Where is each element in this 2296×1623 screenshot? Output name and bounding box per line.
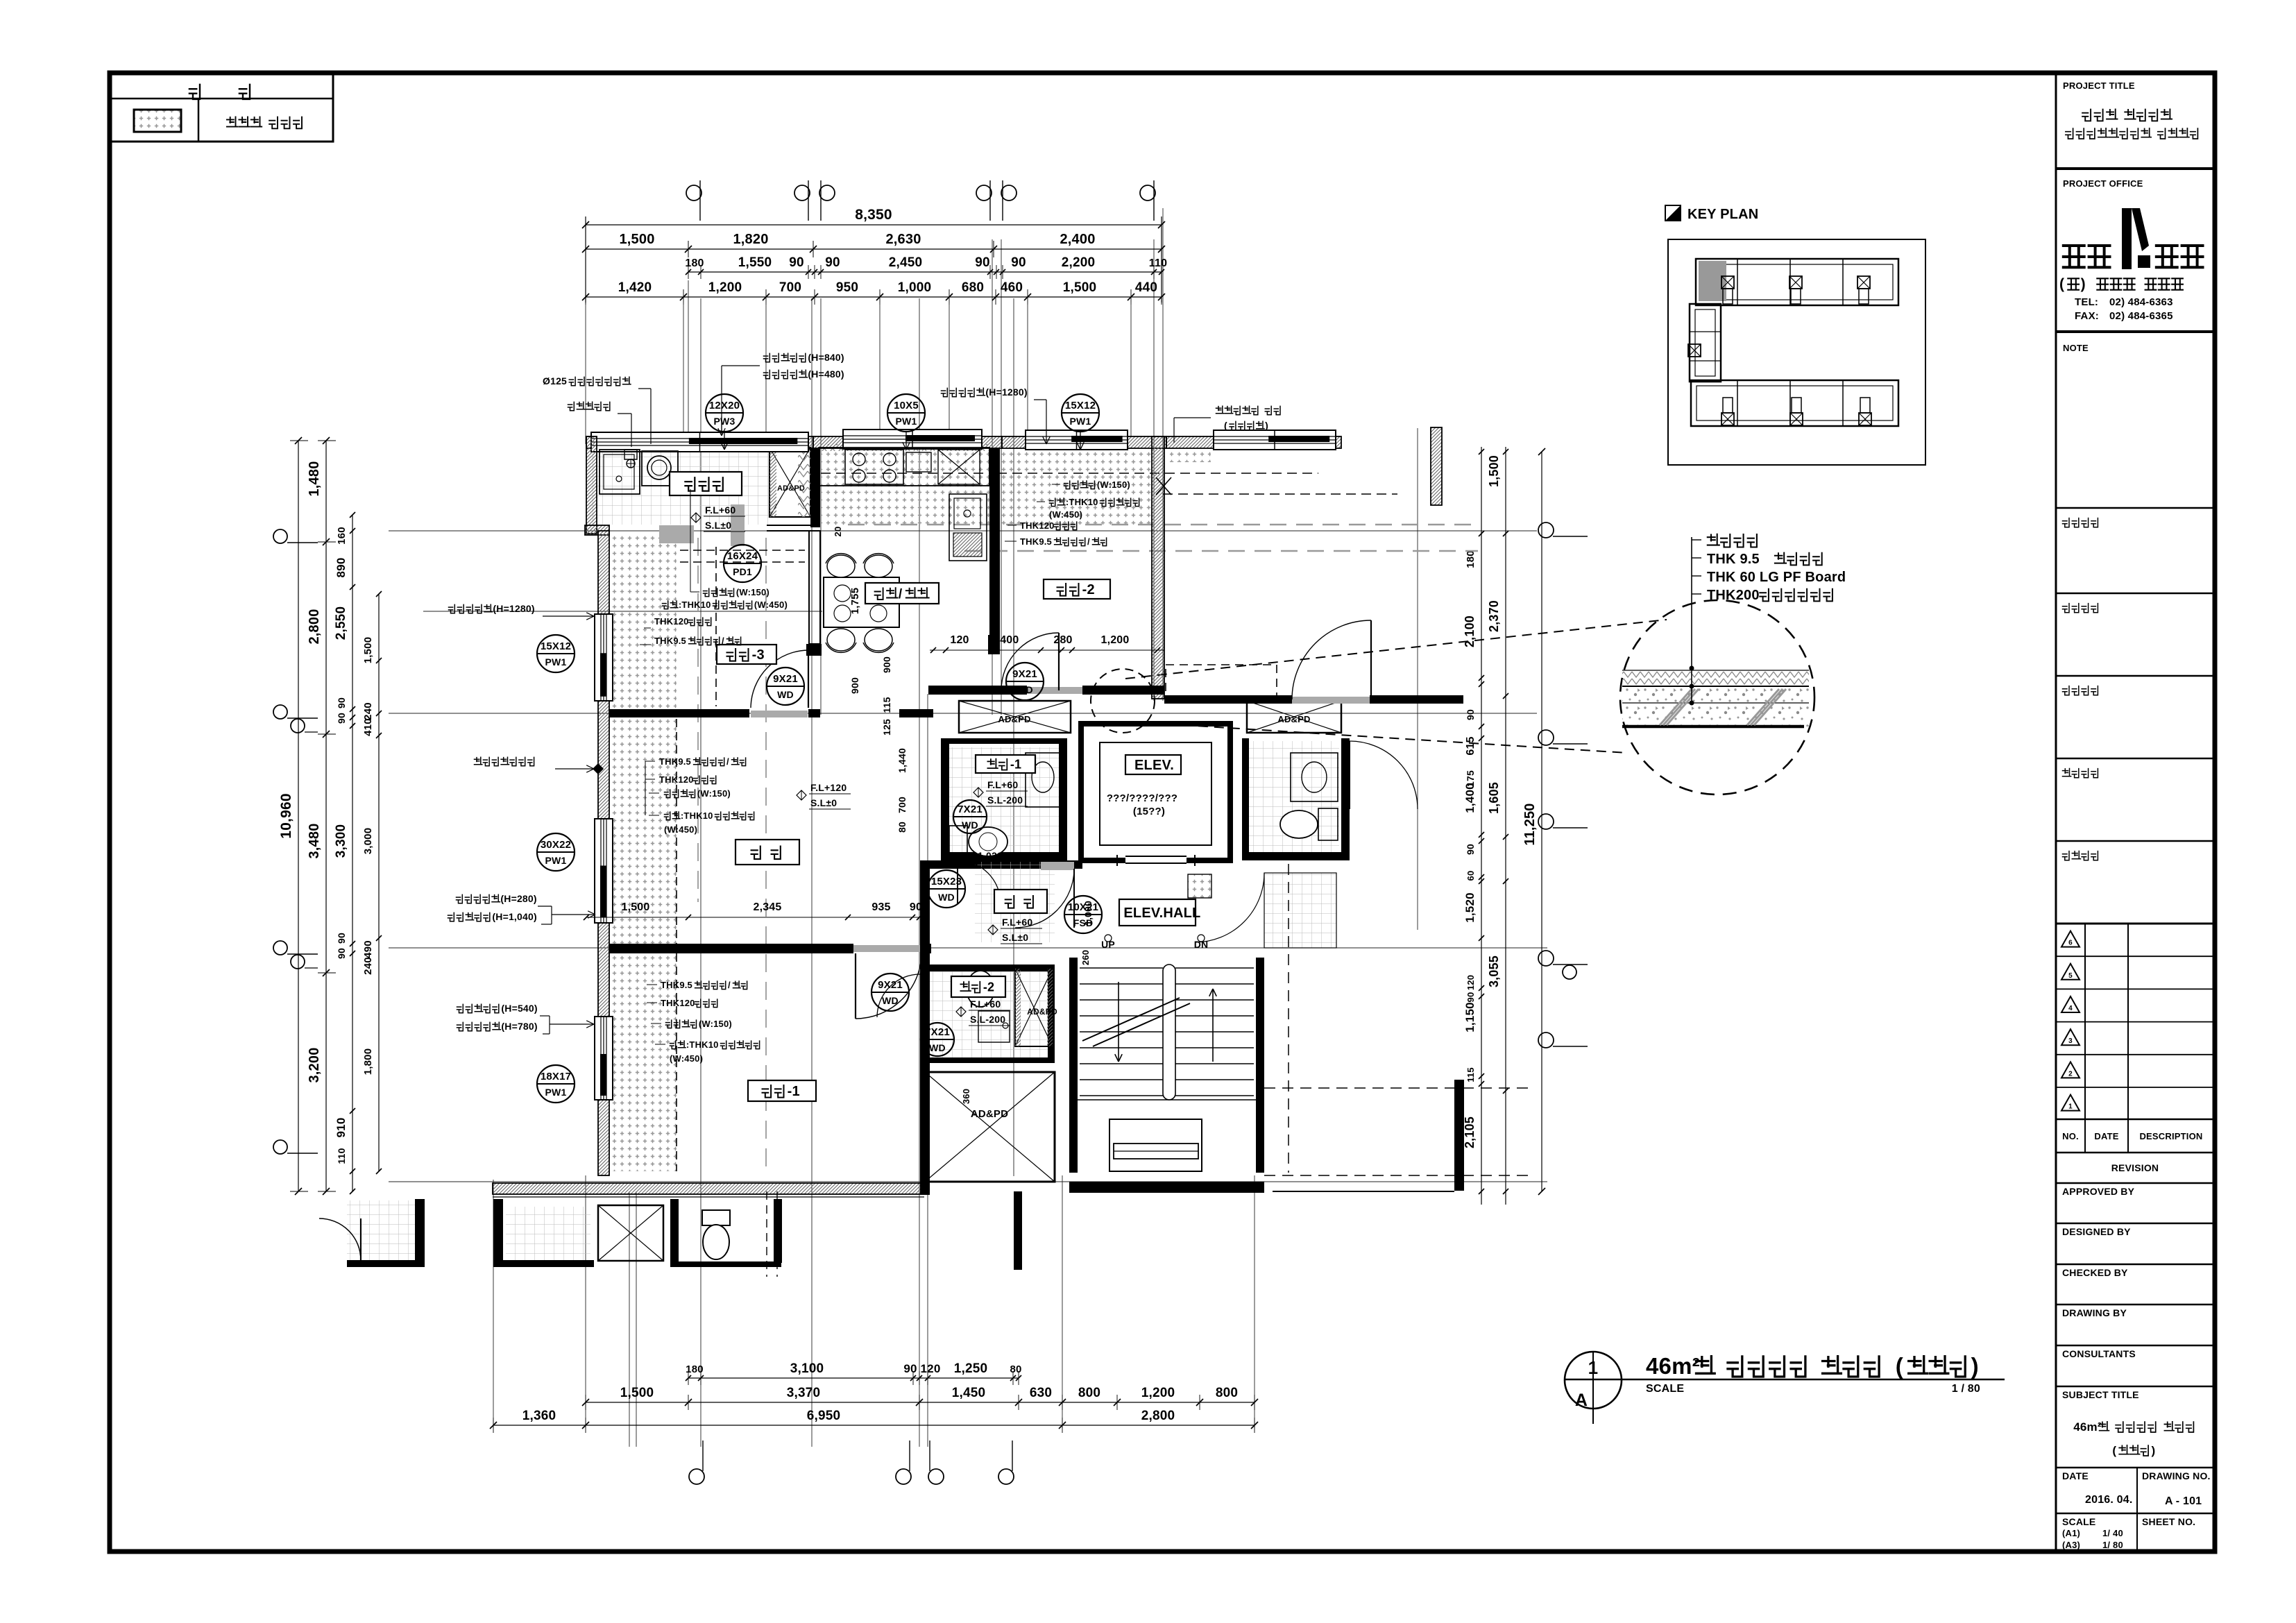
svg-text:PW1: PW1 — [896, 416, 917, 427]
svg-text:(W:450): (W:450) — [754, 600, 788, 610]
svg-text:11,250: 11,250 — [1522, 803, 1538, 845]
svg-text:3: 3 — [2068, 1037, 2073, 1045]
svg-text:F.L+60: F.L+60 — [970, 999, 1001, 1010]
svg-text:2,370: 2,370 — [1487, 600, 1501, 632]
svg-text:5: 5 — [2068, 972, 2073, 980]
svg-text:-2: -2 — [1082, 582, 1095, 597]
svg-text:6,950: 6,950 — [807, 1409, 841, 1423]
svg-text:1 / 80: 1 / 80 — [1952, 1383, 1980, 1395]
svg-text:THK200: THK200 — [1707, 588, 1760, 603]
svg-text:02) 484-6365: 02) 484-6365 — [2109, 310, 2173, 322]
svg-text:SCALE: SCALE — [1646, 1383, 1684, 1395]
svg-text:REVISION: REVISION — [2111, 1162, 2159, 1173]
svg-text:10X5: 10X5 — [894, 400, 919, 411]
svg-text:(H=1,040): (H=1,040) — [492, 911, 536, 922]
svg-text:180: 180 — [685, 257, 704, 269]
svg-text:2,450: 2,450 — [889, 255, 923, 270]
svg-text:(W:150): (W:150) — [697, 788, 731, 799]
svg-text:A - 101: A - 101 — [2165, 1495, 2202, 1507]
svg-text:DATE: DATE — [2094, 1131, 2118, 1141]
svg-text:1,500: 1,500 — [1063, 280, 1097, 295]
svg-text:THK120: THK120 — [654, 616, 689, 627]
svg-text:F.L+120: F.L+120 — [810, 782, 847, 793]
svg-text:02) 484-6363: 02) 484-6363 — [2109, 296, 2173, 308]
svg-text:PW1: PW1 — [1070, 416, 1091, 427]
svg-text:1,000: 1,000 — [1082, 901, 1094, 926]
svg-text:8,350: 8,350 — [855, 207, 892, 223]
svg-text:90: 90 — [825, 255, 840, 270]
svg-text:1,420: 1,420 — [618, 280, 652, 295]
svg-text:240: 240 — [362, 957, 374, 975]
svg-text::THK10: :THK10 — [681, 810, 713, 821]
svg-text:2016. 04.: 2016. 04. — [2085, 1494, 2133, 1506]
svg-text:F.L+60: F.L+60 — [987, 779, 1018, 790]
svg-text:1,500: 1,500 — [619, 232, 654, 247]
svg-text:(: ( — [2112, 1444, 2116, 1457]
svg-text:3,000: 3,000 — [362, 828, 374, 855]
svg-text:280: 280 — [1053, 634, 1072, 646]
svg-text:440: 440 — [1135, 280, 1157, 295]
svg-text:800: 800 — [1078, 1386, 1100, 1400]
svg-text:(H=840): (H=840) — [808, 352, 844, 363]
svg-text:THK9.5: THK9.5 — [661, 980, 692, 990]
svg-text:THK9.5: THK9.5 — [654, 636, 686, 646]
svg-text:S.L-200: S.L-200 — [987, 794, 1023, 806]
svg-text:260: 260 — [1080, 950, 1091, 965]
svg-text:): ) — [2081, 276, 2086, 292]
svg-text:460: 460 — [1001, 280, 1023, 295]
svg-text:/: / — [722, 636, 724, 646]
svg-text:SUBJECT TITLE: SUBJECT TITLE — [2062, 1389, 2139, 1400]
svg-text:(W:150): (W:150) — [699, 1019, 732, 1029]
svg-text:-1: -1 — [1010, 757, 1021, 771]
svg-text:9X21: 9X21 — [773, 673, 798, 685]
svg-text:9X21: 9X21 — [878, 979, 903, 991]
svg-text:125: 125 — [881, 719, 892, 736]
svg-text:1,360: 1,360 — [522, 1409, 556, 1423]
svg-text:1,020: 1,020 — [978, 850, 1003, 861]
svg-text:(: ( — [1896, 1353, 1903, 1379]
svg-text:DRAWING BY: DRAWING BY — [2062, 1307, 2127, 1318]
svg-text:1,500: 1,500 — [362, 637, 374, 664]
svg-text:F.L+60: F.L+60 — [1002, 917, 1032, 928]
svg-text:180: 180 — [1465, 550, 1477, 568]
svg-text:110: 110 — [1149, 257, 1167, 269]
svg-text:AD&PD: AD&PD — [777, 484, 805, 493]
svg-text:WD: WD — [777, 689, 794, 700]
svg-text:15X12: 15X12 — [1065, 400, 1096, 411]
svg-text:80: 80 — [896, 822, 908, 833]
svg-text:15X12: 15X12 — [541, 640, 571, 652]
svg-text:SHEET NO.: SHEET NO. — [2142, 1516, 2195, 1527]
svg-text:DN: DN — [1194, 939, 1209, 950]
svg-text:F.L+60: F.L+60 — [705, 504, 735, 516]
svg-text:2,345: 2,345 — [753, 901, 781, 913]
svg-text:90: 90 — [789, 255, 804, 270]
svg-text:(H=540): (H=540) — [501, 1003, 537, 1014]
svg-text:1,800: 1,800 — [362, 1048, 374, 1076]
svg-text:/: / — [728, 980, 731, 990]
svg-text:PW1: PW1 — [545, 1087, 567, 1098]
svg-text:KEY PLAN: KEY PLAN — [1687, 207, 1758, 222]
svg-text:240: 240 — [362, 702, 374, 720]
svg-text:1,250: 1,250 — [954, 1361, 988, 1376]
svg-text:NOTE: NOTE — [2063, 343, 2089, 353]
svg-text:2,200: 2,200 — [1062, 255, 1096, 270]
svg-text:1,755: 1,755 — [849, 588, 861, 615]
svg-text::THK10: :THK10 — [1066, 497, 1098, 507]
svg-text:S.L±0: S.L±0 — [1002, 932, 1028, 943]
svg-text:7X21: 7X21 — [958, 804, 983, 815]
svg-text:3,200: 3,200 — [307, 1047, 322, 1082]
svg-text:80: 80 — [1010, 1363, 1021, 1375]
svg-text:2,550: 2,550 — [334, 606, 348, 640]
svg-text:1,500: 1,500 — [1487, 455, 1501, 487]
svg-text:-3: -3 — [752, 647, 765, 663]
svg-text:(H=280): (H=280) — [500, 893, 536, 904]
svg-text:3,055: 3,055 — [1487, 955, 1501, 987]
svg-text:DATE: DATE — [2062, 1470, 2089, 1481]
svg-text:(H=480): (H=480) — [808, 368, 844, 380]
svg-text:THK 60 LG PF Board: THK 60 LG PF Board — [1707, 570, 1846, 585]
svg-text:1,605: 1,605 — [1487, 782, 1501, 814]
svg-text:1,150: 1,150 — [1463, 1002, 1477, 1033]
svg-text:2,630: 2,630 — [885, 232, 921, 247]
svg-text:950: 950 — [836, 280, 858, 295]
svg-text:10,960: 10,960 — [278, 793, 294, 838]
svg-text:90: 90 — [336, 948, 347, 959]
svg-text:90: 90 — [336, 713, 347, 724]
svg-text:THK120: THK120 — [661, 998, 695, 1008]
svg-text:1,200: 1,200 — [708, 280, 742, 295]
svg-text:WD: WD — [938, 892, 955, 903]
svg-text:9X21: 9X21 — [1012, 668, 1037, 680]
svg-text:20: 20 — [833, 527, 843, 537]
svg-text:A: A — [1575, 1391, 1588, 1410]
svg-text:115: 115 — [881, 697, 892, 713]
svg-text:1,400: 1,400 — [1463, 783, 1477, 813]
svg-text:): ) — [1971, 1353, 1979, 1379]
svg-text:46m²: 46m² — [2073, 1420, 2102, 1434]
svg-text:): ) — [1265, 420, 1268, 431]
svg-text:S.L±0: S.L±0 — [705, 520, 731, 531]
svg-text:90: 90 — [975, 255, 990, 270]
svg-text:360: 360 — [961, 1089, 971, 1104]
svg-text:ELEV.: ELEV. — [1134, 758, 1174, 773]
svg-text:THK120: THK120 — [1020, 520, 1055, 531]
svg-text:120: 120 — [921, 1362, 941, 1375]
svg-text:SCALE: SCALE — [2062, 1516, 2095, 1527]
svg-text:410: 410 — [362, 718, 374, 736]
svg-text:1,500: 1,500 — [621, 901, 649, 913]
svg-text:90: 90 — [1465, 844, 1476, 855]
svg-text:1,550: 1,550 — [738, 255, 772, 270]
svg-text:???/????/???: ???/????/??? — [1107, 792, 1177, 804]
svg-text:AD&PD: AD&PD — [998, 714, 1030, 724]
svg-text:NO.: NO. — [2062, 1131, 2079, 1141]
svg-text:CHECKED BY: CHECKED BY — [2062, 1267, 2128, 1278]
svg-text:1,000: 1,000 — [898, 280, 932, 295]
svg-text:115: 115 — [1465, 1067, 1476, 1082]
svg-text:16X24: 16X24 — [727, 550, 758, 562]
svg-text:THK9.5: THK9.5 — [1020, 536, 1052, 547]
svg-text:2,105: 2,105 — [1463, 1116, 1477, 1148]
svg-text:1,500: 1,500 — [620, 1386, 654, 1400]
svg-text:1,200: 1,200 — [1100, 634, 1129, 646]
svg-text:PW1: PW1 — [545, 855, 567, 866]
svg-text:4: 4 — [2068, 1005, 2073, 1012]
svg-text:-1: -1 — [788, 1084, 800, 1099]
svg-text:FAX:: FAX: — [2075, 310, 2099, 322]
svg-text:UP: UP — [1101, 939, 1115, 950]
svg-text:/: / — [726, 756, 729, 767]
svg-text:TEL:: TEL: — [2075, 296, 2098, 308]
svg-text:1,450: 1,450 — [952, 1386, 986, 1400]
svg-text:(W:150): (W:150) — [736, 587, 769, 597]
svg-text:18X17: 18X17 — [541, 1071, 571, 1082]
svg-text:2,800: 2,800 — [1141, 1409, 1175, 1423]
svg-text:110: 110 — [336, 1148, 347, 1164]
svg-text:615: 615 — [1465, 736, 1477, 755]
svg-text:(A3): (A3) — [2062, 1540, 2080, 1550]
svg-text:(W:450): (W:450) — [664, 824, 697, 835]
svg-text:APPROVED BY: APPROVED BY — [2062, 1186, 2135, 1197]
svg-text:AD&PD: AD&PD — [1027, 1007, 1057, 1017]
svg-text:(H=780): (H=780) — [501, 1021, 537, 1032]
svg-text:(H=1280): (H=1280) — [493, 603, 534, 614]
svg-text:AD&PD: AD&PD — [971, 1108, 1008, 1120]
svg-text:120: 120 — [950, 634, 969, 646]
svg-text:AD&PD: AD&PD — [1277, 714, 1310, 724]
svg-text:3,100: 3,100 — [790, 1361, 824, 1376]
svg-text:630: 630 — [1030, 1386, 1052, 1400]
svg-text:PROJECT OFFICE: PROJECT OFFICE — [2063, 178, 2143, 189]
svg-text:890: 890 — [334, 558, 348, 578]
svg-text:180: 180 — [686, 1363, 704, 1375]
svg-text:S.L-200: S.L-200 — [970, 1014, 1005, 1025]
svg-text:900: 900 — [849, 677, 860, 694]
svg-text:1,440: 1,440 — [896, 748, 908, 773]
svg-text:700: 700 — [896, 797, 908, 813]
svg-text:(H=1280): (H=1280) — [985, 386, 1027, 398]
svg-text:DRAWING NO.: DRAWING NO. — [2142, 1470, 2211, 1481]
svg-text:THK 9.5: THK 9.5 — [1707, 552, 1760, 567]
svg-text:1,400: 1,400 — [990, 634, 1019, 646]
svg-text:DESCRIPTION: DESCRIPTION — [2139, 1131, 2202, 1141]
svg-text:1,200: 1,200 — [1141, 1386, 1175, 1400]
svg-text:6: 6 — [2068, 940, 2073, 947]
svg-text:7X21: 7X21 — [925, 1026, 950, 1038]
svg-text:700: 700 — [779, 280, 801, 295]
svg-text:120: 120 — [1465, 975, 1476, 990]
svg-text:1: 1 — [1588, 1357, 1599, 1378]
svg-text:160: 160 — [336, 527, 348, 545]
svg-text:): ) — [2151, 1444, 2155, 1457]
svg-text:3,370: 3,370 — [787, 1386, 821, 1400]
svg-text:30X22: 30X22 — [541, 839, 571, 851]
svg-text:PW3: PW3 — [714, 416, 735, 427]
svg-text:710: 710 — [1032, 850, 1049, 861]
svg-text:S.L±0: S.L±0 — [810, 797, 837, 808]
svg-text:2: 2 — [2068, 1070, 2073, 1078]
svg-text:2,800: 2,800 — [307, 609, 322, 644]
svg-text:PD1: PD1 — [733, 566, 752, 577]
svg-text:90: 90 — [1465, 992, 1476, 1003]
svg-text:THK120: THK120 — [659, 774, 694, 785]
svg-text:WD: WD — [1017, 684, 1033, 695]
svg-text:46m²: 46m² — [1646, 1353, 1700, 1379]
svg-text:910: 910 — [334, 1118, 348, 1138]
svg-text:15X23: 15X23 — [931, 876, 962, 887]
svg-text:490: 490 — [362, 940, 374, 958]
svg-text:60: 60 — [1465, 871, 1476, 881]
svg-text:3,480: 3,480 — [307, 823, 322, 858]
svg-text:800: 800 — [1216, 1386, 1238, 1400]
svg-text:1,520: 1,520 — [1463, 892, 1477, 923]
svg-text:WD: WD — [929, 1042, 946, 1053]
svg-text:WD: WD — [962, 819, 978, 831]
svg-text:WD: WD — [882, 995, 899, 1006]
svg-text:(W:150): (W:150) — [1097, 479, 1130, 490]
svg-text:1/ 40: 1/ 40 — [2102, 1528, 2123, 1538]
svg-text:1,480: 1,480 — [307, 461, 322, 496]
svg-text:(: ( — [1224, 420, 1227, 431]
svg-text:(A1): (A1) — [2062, 1528, 2080, 1538]
svg-text:-2: -2 — [983, 980, 994, 994]
svg-text:1/ 80: 1/ 80 — [2102, 1540, 2123, 1550]
svg-text:90: 90 — [1465, 709, 1476, 720]
svg-text:90: 90 — [910, 901, 922, 913]
svg-text:3,300: 3,300 — [334, 824, 348, 858]
svg-text:900: 900 — [881, 656, 892, 673]
svg-text:DESIGNED BY: DESIGNED BY — [2062, 1226, 2131, 1237]
svg-text:680: 680 — [962, 280, 984, 295]
svg-text:2,100: 2,100 — [1463, 615, 1477, 647]
svg-text:PW1: PW1 — [545, 656, 567, 668]
svg-text:CONSULTANTS: CONSULTANTS — [2062, 1348, 2136, 1359]
svg-text:ELEV.HALL: ELEV.HALL — [1123, 906, 1200, 921]
svg-text:90: 90 — [1011, 255, 1026, 270]
svg-text:90: 90 — [336, 933, 347, 944]
svg-text:935: 935 — [871, 901, 890, 913]
svg-text:PROJECT TITLE: PROJECT TITLE — [2063, 80, 2135, 91]
svg-text::THK10: :THK10 — [679, 600, 711, 610]
svg-text:(15??): (15??) — [1133, 806, 1165, 817]
svg-text:1,820: 1,820 — [733, 232, 768, 247]
svg-text:Ø125: Ø125 — [543, 375, 567, 386]
svg-text:THK9.5: THK9.5 — [659, 756, 691, 767]
svg-text:2,400: 2,400 — [1060, 232, 1095, 247]
svg-text:(: ( — [2059, 276, 2064, 292]
svg-text:(W:450): (W:450) — [670, 1053, 703, 1064]
svg-text:1: 1 — [2068, 1103, 2073, 1111]
svg-text:/: / — [899, 587, 903, 602]
svg-text:(W:450): (W:450) — [1049, 509, 1082, 520]
svg-text:90: 90 — [903, 1362, 917, 1375]
svg-text:12X20: 12X20 — [709, 400, 740, 411]
svg-text::THK10: :THK10 — [686, 1039, 719, 1050]
svg-text:90: 90 — [336, 697, 347, 708]
svg-text:/: / — [1087, 536, 1090, 547]
